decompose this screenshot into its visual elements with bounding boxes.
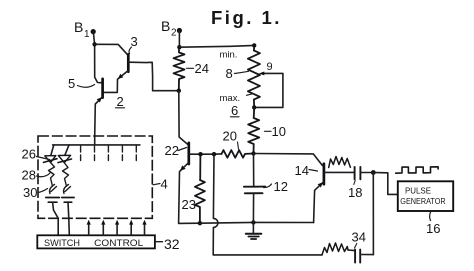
transistor Q2 emitter <box>95 97 103 145</box>
wire Q3 base right and down to node <box>129 62 179 90</box>
svg-text:4: 4 <box>161 177 168 192</box>
svg-text:5: 5 <box>68 76 75 91</box>
svg-text:2: 2 <box>171 28 177 39</box>
svg-text:8: 8 <box>226 66 233 81</box>
Q3 emitter arrow <box>118 74 123 79</box>
dashed stub contacts <box>81 146 137 161</box>
wire node down to Q22 collector <box>179 91 188 145</box>
Q14 emitter arrow <box>318 182 323 187</box>
node dot R23 top <box>198 152 202 156</box>
node dot pot top <box>252 43 256 47</box>
label 28 with tick <box>22 168 51 183</box>
control arrow 1 <box>87 220 91 236</box>
svg-text:10: 10 <box>272 124 286 139</box>
resistor R20 <box>222 150 254 158</box>
svg-text:18: 18 <box>348 185 362 200</box>
transistor Q14 base bar <box>323 164 326 185</box>
label 32 with tick <box>156 236 180 252</box>
label max. with tick <box>220 93 253 104</box>
label 12 with tick <box>264 179 288 194</box>
label 30 with tick <box>23 185 48 200</box>
node dot feedback tap <box>212 152 216 156</box>
wire node to Q14 collector <box>254 154 323 166</box>
capacitor C18 plates <box>354 167 356 179</box>
feedback riser to output node <box>372 173 374 255</box>
diode D27 branch drop <box>65 145 69 155</box>
label 10 <box>265 124 286 139</box>
label 16 with tick <box>426 211 440 236</box>
dashed box 4 <box>38 136 152 218</box>
resistor R24 <box>174 47 185 90</box>
node dot B1-Q3 <box>92 42 96 46</box>
diode D27 <box>58 155 72 162</box>
svg-text:6: 6 <box>231 103 238 118</box>
capacitor C12 plates <box>244 186 265 188</box>
switch control text <box>44 238 143 248</box>
pulse generator text <box>400 186 445 207</box>
terminal B1 dot <box>91 29 96 34</box>
terminal B2 label <box>161 18 177 39</box>
wire C18 to node <box>361 172 374 174</box>
terminal B1 label <box>74 19 90 40</box>
transistor Q22 base bar <box>187 143 190 164</box>
svg-text:30: 30 <box>23 185 37 200</box>
transistor Q14 emitter <box>314 182 324 223</box>
label 5 with tick <box>68 76 95 91</box>
node dot R20 right <box>251 151 255 155</box>
ground wire <box>200 221 314 224</box>
wire Q14 base to C18 <box>325 171 355 173</box>
resistor squiggle above base wire <box>329 157 351 168</box>
svg-text:34: 34 <box>352 230 366 245</box>
ground symbol <box>246 222 261 239</box>
label 9 <box>267 61 273 73</box>
node dot B2 <box>177 45 181 49</box>
pulse generator box U16 <box>398 181 453 211</box>
inner bus line <box>53 144 140 146</box>
svg-text:23: 23 <box>182 197 196 212</box>
transistor Q2 base bar <box>101 79 104 98</box>
capacitor C34 plates <box>354 250 356 263</box>
title Fig. 1. <box>211 7 282 28</box>
wire B2 down <box>178 31 180 48</box>
capacitor C12 bottom lead <box>252 193 254 222</box>
diode D26 <box>44 156 58 163</box>
svg-text:min.: min. <box>220 50 238 61</box>
capacitor C12 top lead <box>253 154 255 187</box>
wiper arrow of R9 <box>257 73 283 107</box>
wire Q3 collector from B1 node <box>95 44 128 55</box>
Q2 emitter arrow <box>97 97 102 102</box>
wire B1 down <box>93 32 102 83</box>
battery cell branch 1 <box>46 198 60 236</box>
switch control box <box>37 235 155 248</box>
battery cell branch 2 <box>62 198 74 236</box>
svg-text:GENERATOR: GENERATOR <box>400 196 445 206</box>
diode D26 branch drop <box>51 145 54 156</box>
resistor R23 <box>195 154 205 223</box>
control arrow 2 <box>101 220 105 236</box>
node dot output <box>371 170 376 175</box>
label 34 with tick <box>352 230 366 249</box>
transistor Q22 emitter <box>179 163 200 224</box>
potentiometer R9 <box>248 45 260 107</box>
label 20 with tick <box>223 129 239 150</box>
svg-text:24: 24 <box>195 61 209 76</box>
svg-text:PULSE: PULSE <box>405 186 431 196</box>
terminal B2 dot <box>177 28 182 33</box>
svg-text:1: 1 <box>84 29 90 40</box>
svg-text:Fig. 1.: Fig. 1. <box>211 7 282 28</box>
node dot below R24 <box>177 89 181 93</box>
label 2 underlined <box>116 94 125 109</box>
control arrow 3 <box>115 220 119 236</box>
svg-text:16: 16 <box>426 221 440 236</box>
svg-text:SWITCH: SWITCH <box>44 238 80 248</box>
label 22 with tick <box>165 143 187 158</box>
svg-text:26: 26 <box>22 147 36 162</box>
svg-text:B: B <box>161 18 170 34</box>
wiggle element branch 1 <box>49 163 55 186</box>
switch arc branch 2 <box>64 185 71 194</box>
label 3 <box>129 34 138 54</box>
svg-text:32: 32 <box>164 236 180 252</box>
control arrow 4 <box>129 220 133 236</box>
wire node to pulse generator <box>373 173 398 195</box>
transistor Q3 emitter <box>103 71 128 93</box>
transistor Q3 base bar <box>127 54 130 71</box>
control arrow 5 <box>142 220 146 236</box>
feedback wire with hop <box>213 154 322 255</box>
label 18 with tick <box>348 181 362 201</box>
square wave symbol <box>396 167 438 173</box>
svg-text:CONTROL: CONTROL <box>94 238 143 248</box>
resistor R10 <box>248 107 259 153</box>
wiggle element branch 2 <box>63 163 69 186</box>
label 26 with tick <box>22 147 50 162</box>
label 24 <box>187 61 209 76</box>
svg-text:2: 2 <box>117 94 124 109</box>
node dot pot bottom <box>252 105 256 109</box>
label 14 with tick <box>295 163 318 178</box>
squiggle resistor on bottom wire <box>322 243 348 255</box>
label 6 underlined <box>231 103 240 118</box>
label min. <box>220 50 238 61</box>
svg-text:22: 22 <box>165 143 179 158</box>
label 23 <box>182 197 196 212</box>
svg-text:12: 12 <box>274 179 288 194</box>
wire squiggle to C34 <box>348 249 355 252</box>
svg-text:B: B <box>74 19 83 35</box>
Q22 emitter arrow <box>180 165 185 170</box>
node dot ground <box>251 220 255 224</box>
label 4 with tick <box>153 177 168 192</box>
wire Q22 base to R20 <box>189 153 221 155</box>
node dot R23 bottom <box>198 221 202 225</box>
label 8 with tick <box>226 66 249 81</box>
svg-text:20: 20 <box>223 129 237 144</box>
wire B2 node to potentiometer top <box>179 45 254 47</box>
svg-text:14: 14 <box>295 163 309 178</box>
svg-text:9: 9 <box>267 61 273 73</box>
wire C34 to riser <box>361 254 374 256</box>
svg-text:28: 28 <box>22 168 36 183</box>
switch arc branch 1 <box>50 185 57 194</box>
